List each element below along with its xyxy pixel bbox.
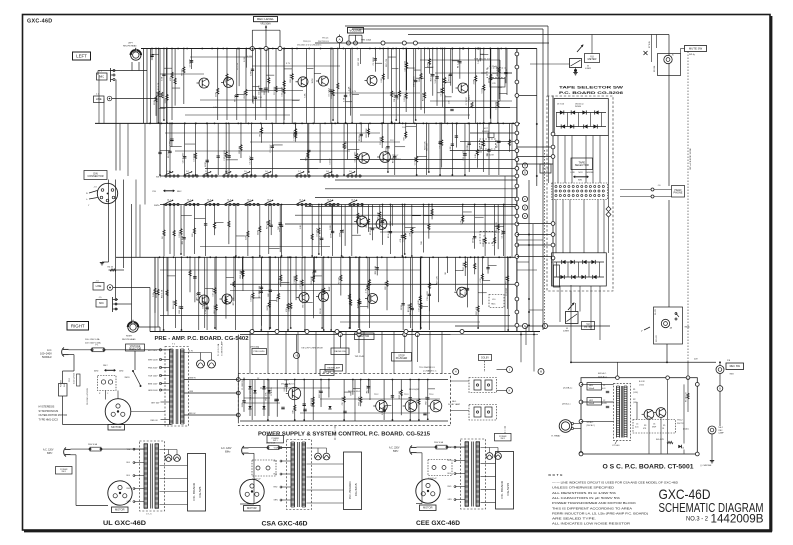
diode bridge detail <box>242 380 285 416</box>
svg-text:1b-7: 1b-7 <box>299 200 303 202</box>
transformer (CSA) <box>274 440 312 510</box>
jack J1 MIC <box>97 68 116 82</box>
svg-text:TM1 PLAY: TM1 PLAY <box>355 355 365 358</box>
svg-text:A.C. 120V: A.C. 120V <box>43 449 54 452</box>
node G <box>542 323 547 328</box>
wire <box>71 455 109 506</box>
svg-text:56K: 56K <box>421 240 423 244</box>
board outline CG-5206 <box>547 96 613 291</box>
svg-text:LOW: LOW <box>571 172 575 174</box>
svg-text:120K: 120K <box>250 70 252 75</box>
svg-text:(25.5VA.C.): (25.5VA.C.) <box>563 387 573 390</box>
svg-text:NE-1: NE-1 <box>452 401 456 403</box>
resistor R4 (osc) <box>649 439 673 444</box>
svg-text:METER: METER <box>588 58 597 61</box>
svg-text:R2: R2 <box>633 399 635 401</box>
svg-text:ARE SEALED TYPE.: ARE SEALED TYPE. <box>552 518 597 521</box>
capacitor C2 (osc) <box>602 400 609 408</box>
label pre level <box>251 345 267 354</box>
capacitor C30 <box>449 99 454 110</box>
pcb box (CSA) <box>344 452 362 510</box>
svg-text:R27 47K: R27 47K <box>476 306 478 315</box>
svg-text:TR1,2: TR1,2 <box>677 420 683 422</box>
wire <box>666 344 668 363</box>
svg-text:(20V A.C.): (20V A.C.) <box>562 403 571 406</box>
switch VOLTAGE SELECTOR <box>126 344 145 370</box>
label 66V AC <box>598 372 608 378</box>
svg-text:C3 10/25: C3 10/25 <box>373 56 375 65</box>
wire <box>617 362 688 377</box>
svg-text:500mB: 500mB <box>589 388 595 390</box>
svg-text:SW11: SW11 <box>125 377 130 379</box>
svg-text:780C: 780C <box>491 304 496 306</box>
wire <box>581 384 614 421</box>
wire <box>98 62 147 71</box>
svg-text:R7 27K: R7 27K <box>235 94 237 101</box>
wire <box>360 114 470 116</box>
wire <box>517 146 553 148</box>
svg-text:(1.5K): (1.5K) <box>633 392 638 394</box>
transistor TR2 (psu) <box>373 394 387 412</box>
wire <box>95 122 520 124</box>
svg-text:780C: 780C <box>482 240 487 242</box>
motor (CSA) <box>240 479 264 511</box>
resistor/capacitor group (row2 dense) <box>169 204 499 255</box>
wire <box>184 350 212 352</box>
wire <box>533 96 549 332</box>
svg-text:R15 56K: R15 56K <box>311 397 313 406</box>
svg-text:CG-525: CG-525 <box>198 486 202 497</box>
svg-text:SELECTOR: SELECTOR <box>129 348 142 350</box>
switch POWER SW1 <box>59 74 372 425</box>
svg-text:C1 10/25: C1 10/25 <box>294 275 296 284</box>
svg-text:GRN 9V: GRN 9V <box>189 377 196 379</box>
lamp PL1 <box>197 353 205 369</box>
svg-text:220P: 220P <box>267 305 269 310</box>
diode array D9-D16 <box>552 253 607 286</box>
resistor R1 4.7K <box>158 82 163 98</box>
svg-text:YLW 120V: YLW 120V <box>148 376 158 378</box>
svg-text:60Hz: 60Hz <box>94 371 98 373</box>
svg-text:R25 1M: R25 1M <box>264 87 266 94</box>
svg-text:R33 150K: R33 150K <box>497 66 499 76</box>
inductor L5 <box>476 139 496 157</box>
wire <box>517 240 543 310</box>
wire <box>416 453 422 504</box>
switch POWER (CSA) <box>267 435 284 443</box>
AC input (CSA) <box>221 446 249 455</box>
svg-text:50Hz: 50Hz <box>393 451 399 453</box>
wire <box>69 355 75 371</box>
svg-text:TR 4,5: TR 4,5 <box>322 38 329 40</box>
svg-text:(50V A.C.): (50V A.C.) <box>598 375 608 378</box>
svg-text:P.B: P.B <box>153 191 157 193</box>
wire <box>517 163 553 165</box>
svg-text:1b-8: 1b-8 <box>327 200 331 202</box>
svg-text:C1 10/25: C1 10/25 <box>501 229 503 238</box>
svg-text:50/60Hz: 50/60Hz <box>42 355 52 359</box>
wire <box>184 413 238 415</box>
svg-text:HYSTERESIS: HYSTERESIS <box>39 406 55 409</box>
wire (dash link) <box>335 426 505 440</box>
wire <box>160 107 510 109</box>
wire <box>112 99 157 124</box>
wire <box>106 391 166 412</box>
transformer (CEE) <box>448 439 486 509</box>
svg-text:1-8: 1-8 <box>326 171 329 173</box>
wire <box>63 424 172 426</box>
svg-text:TAPE SELECTOR SW: TAPE SELECTOR SW <box>559 86 624 90</box>
wire <box>160 73 204 75</box>
wire <box>71 448 145 450</box>
wire <box>571 285 576 312</box>
resistor/capacitor group (right ch upper) <box>162 204 506 257</box>
svg-text:(PB 50kA): (PB 50kA) <box>251 345 260 348</box>
caption POWER SUPPLY board <box>258 431 430 437</box>
wire <box>184 377 238 379</box>
svg-text:5.6K: 5.6K <box>162 76 164 81</box>
AC input (UL) <box>43 448 71 457</box>
resistor/capacitor group (left preamp mid) <box>158 123 510 176</box>
control VOLUME VR3 <box>347 28 372 46</box>
meter VU-1 <box>530 44 600 75</box>
svg-text:100K: 100K <box>339 232 341 237</box>
transistor TR3 (right ch) <box>297 293 310 303</box>
svg-text:5.6K: 5.6K <box>450 146 452 151</box>
wire <box>109 180 124 299</box>
svg-text:A.C. 120V: A.C. 120V <box>221 447 232 450</box>
wire <box>451 334 539 336</box>
wire <box>69 349 172 351</box>
svg-text:10/16: 10/16 <box>427 62 429 68</box>
svg-text:250V 0.3A: 250V 0.3A <box>434 441 444 444</box>
caption UL <box>103 521 147 527</box>
svg-text:MIC: MIC <box>99 301 104 305</box>
wire <box>517 223 552 225</box>
resistor R56 <box>469 94 473 108</box>
svg-text:C15 0.0033: C15 0.0033 <box>404 60 406 71</box>
svg-text:0.022: 0.022 <box>482 87 484 93</box>
svg-text:R7 27K: R7 27K <box>197 292 199 299</box>
svg-text:NOR: NOR <box>579 172 584 174</box>
svg-text:20V: 20V <box>694 359 698 361</box>
lamp PAUSE LAMP <box>325 365 343 372</box>
transistor TR7 (right ch) <box>374 219 387 230</box>
caption CEE <box>416 521 461 527</box>
wire <box>160 315 510 317</box>
svg-text:100K: 100K <box>366 222 368 227</box>
svg-text:33K: 33K <box>293 409 295 413</box>
svg-text:C7 0.027: C7 0.027 <box>270 144 272 153</box>
svg-text:R23 8.2K: R23 8.2K <box>331 90 333 99</box>
svg-text:R21 12K: R21 12K <box>431 73 433 82</box>
svg-text:5.6K: 5.6K <box>478 59 480 64</box>
svg-text:1b-2: 1b-2 <box>187 200 191 202</box>
svg-text:YLW: YLW <box>448 447 452 449</box>
svg-text:2.2K: 2.2K <box>284 387 286 392</box>
svg-text:56K: 56K <box>419 78 421 82</box>
wire <box>517 234 552 236</box>
svg-text:R27 47K: R27 47K <box>505 276 507 285</box>
svg-text:E. HEAD: E. HEAD <box>552 435 561 438</box>
node H <box>453 369 459 375</box>
svg-text:2.2K: 2.2K <box>343 97 345 102</box>
wire <box>305 205 517 207</box>
svg-text:250V 0.3A: 250V 0.3A <box>88 443 98 446</box>
svg-text:56K: 56K <box>278 225 280 229</box>
wire <box>560 286 600 340</box>
svg-text:WZ090: WZ090 <box>575 106 581 108</box>
svg-text:R27 47K: R27 47K <box>436 275 438 284</box>
svg-text:VR1 50kA: VR1 50kA <box>260 23 271 26</box>
wire <box>668 35 670 187</box>
svg-text:0-9MW: 0-9MW <box>585 68 591 70</box>
svg-text:10/16: 10/16 <box>289 306 291 312</box>
wire <box>517 49 537 97</box>
svg-text:0.047+47/250: 0.047+47/250 <box>74 373 76 384</box>
svg-text:C3 10/25: C3 10/25 <box>414 156 416 165</box>
svg-text:R21 12K: R21 12K <box>259 285 261 294</box>
svg-text:C15 0.0033: C15 0.0033 <box>224 149 226 160</box>
wire <box>230 283 517 285</box>
svg-text:0.022: 0.022 <box>244 56 246 62</box>
svg-text:R25 1M: R25 1M <box>399 391 401 398</box>
lamp PL (CEE) <box>481 448 502 460</box>
svg-text:60Hz: 60Hz <box>225 452 231 454</box>
svg-text:1.5V: 1.5V <box>258 97 263 99</box>
wire <box>160 466 188 505</box>
svg-text:GXC-46D: GXC-46D <box>27 19 52 25</box>
capacitor C1 (osc) <box>602 385 609 393</box>
svg-text:2SC1345 D D or 2SC458 C: 2SC1345 D D or 2SC458 C <box>297 45 322 47</box>
transistor TR2 (right ch) <box>220 294 233 304</box>
transistor TR6 (right ch) <box>354 216 367 227</box>
svg-text:C17 47/3: C17 47/3 <box>380 136 382 145</box>
svg-text:N O T E: N O T E <box>549 473 563 477</box>
svg-text:0.0047: 0.0047 <box>293 130 295 137</box>
svg-text:0-9MW: 0-9MW <box>563 331 569 333</box>
svg-text:UNLESS OTHERWISE SPECIFIED: UNLESS OTHERWISE SPECIFIED <box>552 487 614 490</box>
label LEFT <box>73 52 91 60</box>
svg-text:100K: 100K <box>225 77 227 82</box>
svg-text:SELECTOR: SELECTOR <box>575 163 589 167</box>
transistor TR1 <box>197 78 210 88</box>
svg-text:GRN: GRN <box>127 501 132 503</box>
svg-text:VU METER LAMP: VU METER LAMP <box>221 341 224 356</box>
voltage annotations <box>213 54 484 142</box>
svg-text:FERRI INDUCTOR L4, L5, L5b (: FERRI INDUCTOR L4, L5, L5b (PRE-AMP P.C.… <box>552 512 648 515</box>
transistor TR8 <box>456 83 469 93</box>
svg-text:120K: 120K <box>246 234 248 239</box>
wire <box>315 41 549 45</box>
ground <box>100 262 109 265</box>
transistor TR7 <box>377 152 390 163</box>
wire <box>521 326 534 372</box>
wire <box>165 132 380 134</box>
svg-text:BLK 240V: BLK 240V <box>148 350 158 352</box>
svg-text:A: A <box>339 38 341 42</box>
label PL1,2 <box>217 341 224 356</box>
node F <box>522 323 527 328</box>
svg-text:33K: 33K <box>487 152 489 156</box>
svg-text:M: M <box>540 371 542 374</box>
svg-text:10/16: 10/16 <box>401 304 403 310</box>
svg-text:A.C. 220V: A.C. 220V <box>389 447 400 450</box>
svg-text:—·— LINE INDICATES CIRCUIT: —·— LINE INDICATES CIRCUIT IS USED FOR C… <box>552 482 678 485</box>
svg-text:R3: R3 <box>644 425 646 427</box>
jack J4 LINE <box>93 281 150 332</box>
pcb box (UL) <box>188 454 206 512</box>
svg-text:BRN 110V: BRN 110V <box>148 384 158 386</box>
wire <box>430 100 512 102</box>
wire <box>416 335 418 363</box>
wire <box>542 96 544 330</box>
svg-text:0.033: 0.033 <box>602 403 607 405</box>
caption PRE-AMP board <box>155 336 249 342</box>
svg-text:R1 4.7K: R1 4.7K <box>458 60 460 68</box>
wire <box>481 464 496 503</box>
rec/pb head RIGHT <box>122 320 160 341</box>
svg-text:0.01: 0.01 <box>635 427 639 429</box>
svg-text:4.7K: 4.7K <box>461 220 463 225</box>
svg-text:C15 0.0033: C15 0.0033 <box>496 222 498 233</box>
plunger STOP PLUNGER <box>392 335 412 362</box>
svg-text:OUT SW: OUT SW <box>359 335 369 338</box>
motor (CEE) <box>416 479 440 511</box>
svg-text:R33 150K: R33 150K <box>366 128 368 138</box>
svg-text:OFF at P.B & REC MODE: OFF at P.B & REC MODE <box>689 148 692 170</box>
transistor TR4 (psu) <box>428 394 442 412</box>
svg-text:SW1b: SW1b <box>154 205 160 207</box>
svg-text:D2: D2 <box>257 378 259 380</box>
svg-text:TYPE HM1-12C3: TYPE HM1-12C3 <box>39 418 59 421</box>
svg-text:R15 56K: R15 56K <box>463 262 465 271</box>
lamp NE-1 DOLBY <box>448 401 461 406</box>
switch REC SW (psu) <box>320 370 334 376</box>
svg-text:R1: R1 <box>633 389 635 391</box>
svg-text:MOTOR: MOTOR <box>111 425 121 429</box>
svg-text:GXC-46D: GXC-46D <box>659 487 711 502</box>
relay box (CSA) <box>252 460 276 481</box>
svg-text:C1 1000/35: C1 1000/35 <box>242 380 244 390</box>
svg-text:R33 150K: R33 150K <box>359 396 361 406</box>
wire <box>190 56 252 58</box>
svg-text:C11 4.7/35: C11 4.7/35 <box>282 86 284 97</box>
svg-text:120K: 120K <box>330 224 332 229</box>
wire <box>175 150 350 152</box>
svg-text:R7 8.2K: R7 8.2K <box>649 40 651 48</box>
resistor R4 1K <box>108 267 125 272</box>
svg-text:66V A.C.: 66V A.C. <box>598 372 607 375</box>
svg-text:0.022: 0.022 <box>276 296 278 302</box>
svg-text:C2 470/25: C2 470/25 <box>271 387 273 396</box>
svg-text:C17 47/3: C17 47/3 <box>380 218 382 227</box>
svg-text:2.2K: 2.2K <box>205 309 207 314</box>
svg-text:R9 47K: R9 47K <box>655 308 657 315</box>
svg-text:R4 1K: R4 1K <box>108 267 114 269</box>
svg-text:R23 8.2K: R23 8.2K <box>173 300 175 309</box>
label CT-6 <box>146 514 152 516</box>
label chrome <box>700 465 712 467</box>
svg-text:47K: 47K <box>286 308 288 312</box>
ground <box>710 461 714 463</box>
svg-text:2.2K: 2.2K <box>382 410 384 415</box>
node N <box>294 335 300 359</box>
svg-text:220P: 220P <box>474 79 476 84</box>
note block <box>549 473 679 526</box>
svg-text:UL GXC-46D: UL GXC-46D <box>103 521 147 527</box>
svg-text:R11 2.2K: R11 2.2K <box>481 140 483 149</box>
resistor/capacitor group (preamp dense 2) <box>154 48 507 121</box>
label P.B-REC <box>153 189 183 193</box>
svg-text:100K: 100K <box>467 144 469 149</box>
svg-text:YLW: YLW <box>274 448 278 450</box>
svg-text:C11 4.7/35: C11 4.7/35 <box>250 390 252 401</box>
svg-text:33K: 33K <box>203 305 205 309</box>
wire <box>352 29 543 96</box>
svg-text:R27 47K: R27 47K <box>267 220 269 229</box>
svg-text:C3 10/25: C3 10/25 <box>439 139 441 148</box>
svg-text:1b-3: 1b-3 <box>207 200 211 202</box>
resistor/capacitor group (mid dense 2) <box>168 123 485 173</box>
svg-text:SYNCHRONOUS: SYNCHRONOUS <box>39 410 59 413</box>
svg-text:R17 330: R17 330 <box>319 389 321 398</box>
node M <box>538 369 544 375</box>
svg-text:PHONE: PHONE <box>674 191 683 194</box>
transistor TR2 <box>221 77 234 87</box>
svg-text:R23 8.2K: R23 8.2K <box>378 211 380 220</box>
svg-text:C11 4.7/35: C11 4.7/35 <box>463 150 465 161</box>
resistor/capacitor group (left preamp upper) <box>150 48 507 124</box>
svg-text:(7.5V): (7.5V) <box>639 384 644 386</box>
label EXT <box>482 128 494 138</box>
wire <box>380 231 500 233</box>
svg-text:C17 47/3: C17 47/3 <box>419 302 421 311</box>
caption CSA <box>262 522 309 528</box>
svg-text:R23 8.2K: R23 8.2K <box>290 73 292 82</box>
svg-text:50Hz: 50Hz <box>119 371 123 373</box>
svg-text:DM 2: DM 2 <box>103 365 108 367</box>
svg-text:120K: 120K <box>330 233 332 238</box>
svg-text:LEFT: LEFT <box>128 43 134 45</box>
svg-text:R17 330: R17 330 <box>427 142 429 151</box>
jack J6 headphone <box>620 185 685 198</box>
svg-text:1-7: 1-7 <box>298 171 301 173</box>
wire <box>517 156 553 158</box>
wire <box>505 124 512 332</box>
svg-text:POWER TRANSFORMER AND MOTOR: POWER TRANSFORMER AND MOTOR BLOCK <box>552 502 637 505</box>
node J <box>507 367 513 373</box>
svg-text:2.2K: 2.2K <box>300 224 302 229</box>
transistor TR1 (osc) <box>642 409 654 419</box>
wire <box>345 26 548 96</box>
svg-text:A.C.: A.C. <box>47 348 52 352</box>
wire (right bus) <box>515 49 519 332</box>
label TR6,7 type <box>390 155 402 161</box>
svg-text:DOLBY LAMP: DOLBY LAMP <box>448 403 461 406</box>
lamp PL2 <box>208 353 216 369</box>
wire <box>159 327 161 332</box>
wire <box>240 453 254 504</box>
meter VU-2 <box>563 302 595 332</box>
resonator X1 <box>551 262 560 287</box>
jack J2 LINE <box>94 94 112 103</box>
svg-text:P.C. BOARD: P.C. BOARD <box>192 482 196 500</box>
svg-text:CONNECTOR: CONNECTOR <box>87 175 103 178</box>
svg-text:RD9.1E(B2): RD9.1E(B2) <box>409 389 420 391</box>
wire <box>571 359 716 363</box>
svg-text:R-: R- <box>86 193 88 195</box>
